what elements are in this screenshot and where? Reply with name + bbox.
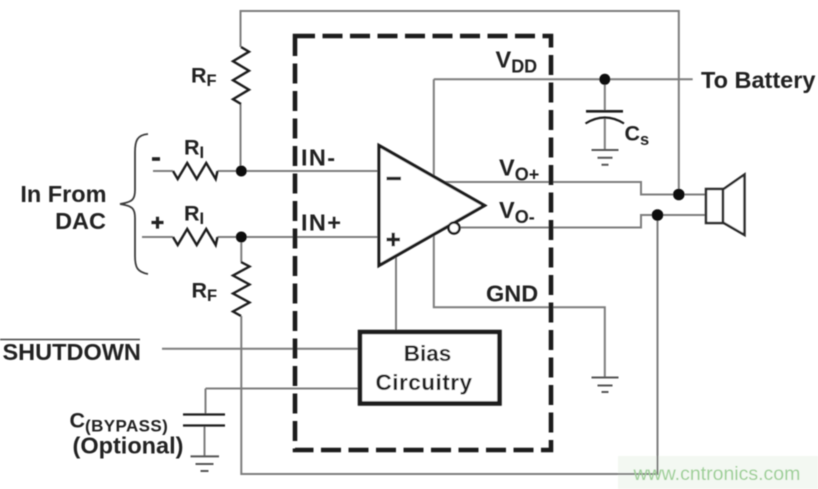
svg-text:IN+: IN+ xyxy=(301,210,342,236)
svg-text:Bias: Bias xyxy=(404,341,452,366)
svg-text:(Optional): (Optional) xyxy=(73,433,184,459)
svg-text:In From: In From xyxy=(20,181,106,207)
svg-text:DAC: DAC xyxy=(55,208,106,234)
svg-text:SHUTDOWN: SHUTDOWN xyxy=(3,339,141,365)
svg-text:www.cntronics.com: www.cntronics.com xyxy=(633,463,801,485)
svg-text:To Battery: To Battery xyxy=(701,67,815,93)
svg-text:Circuitry: Circuitry xyxy=(375,370,472,395)
svg-text:GND: GND xyxy=(486,281,538,307)
svg-text:IN-: IN- xyxy=(301,145,337,171)
